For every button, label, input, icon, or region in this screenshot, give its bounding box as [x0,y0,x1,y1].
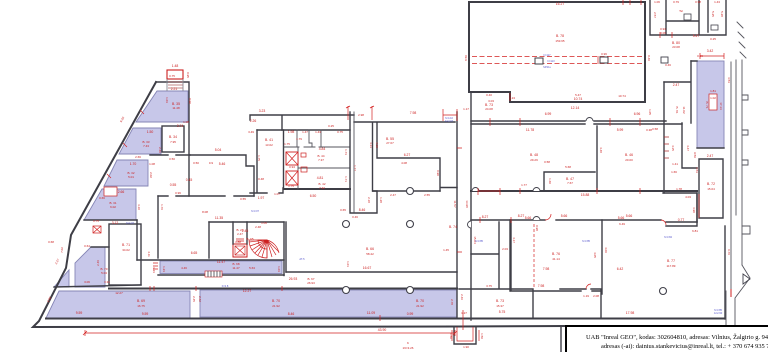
svg-text:1.03: 1.03 [277,266,281,272]
svg-text:0.75: 0.75 [169,74,175,78]
room P2 blue parallelogram [119,128,161,154]
svg-text:UAB "Inreal GEO", kodas: 30260: UAB "Inreal GEO", kodas: 302604810, adre… [586,333,768,341]
svg-text:7.98: 7.98 [538,284,545,288]
svg-text:6.02: 6.02 [110,205,116,209]
svg-text:1.28: 1.28 [379,197,383,203]
svg-text:21.92: 21.92 [272,304,280,308]
svg-text:1.98: 1.98 [288,130,295,134]
svg-text:2.42: 2.42 [198,296,202,302]
svg-text:4.84: 4.84 [319,147,326,151]
room B.72 [699,159,723,218]
svg-text:41.14: 41.14 [552,257,560,261]
red dim overlay on wall y194 [478,188,500,195]
svg-text:h=3.85: h=3.85 [475,239,484,243]
svg-text:8.08: 8.08 [202,210,208,214]
neighbour hatches top [737,22,746,58]
room P5 blue lower-left [75,247,105,287]
wall x286 hall M1 left [285,222,287,272]
wall y196 left corridor bottom [158,195,254,197]
svg-text:2.08: 2.08 [593,294,599,298]
svg-text:1.06: 1.06 [654,0,660,4]
svg-text:0.68: 0.68 [48,240,54,244]
svg-text:5.66: 5.66 [626,214,633,218]
wall y222 stair room top [209,221,284,223]
svg-text:5.28: 5.28 [720,11,724,17]
svg-text:6.76: 6.76 [727,249,731,255]
svg-text:1.07: 1.07 [274,192,280,196]
svg-text:3.31: 3.31 [104,280,110,284]
dashed red verticals [533,224,535,289]
door swing arcs [468,118,593,228]
wall jog y213 [350,189,377,213]
frame line left of title block [560,326,562,352]
svg-text:h=3.85: h=3.85 [582,239,591,243]
svg-text:21.92: 21.92 [416,304,424,308]
svg-text:2.98: 2.98 [358,113,364,117]
svg-text:6.65: 6.65 [191,251,198,255]
room B.47 [544,172,595,191]
svg-text:2.45: 2.45 [192,296,196,302]
svg-text:16.67: 16.67 [363,266,372,270]
svg-text:h=4.07: h=4.07 [126,221,135,225]
small room above lift [233,222,247,244]
svg-text:13.98: 13.98 [465,200,469,208]
room B.34 [162,126,184,152]
svg-text:B. 71: B. 71 [122,243,130,247]
wall y318 bottom right section [457,318,725,320]
svg-text:8.27: 8.27 [482,215,489,219]
big room B.78 [469,2,645,102]
svg-text:B. 78: B. 78 [556,34,564,38]
outer diagonal wall left [33,82,566,327]
svg-text:0.58: 0.58 [652,127,658,131]
svg-text:K: K [407,341,409,345]
svg-text:Tsl: Tsl [679,9,683,13]
svg-text:7.98: 7.98 [410,111,417,115]
svg-text:11.09: 11.09 [367,311,375,315]
svg-text:1.81: 1.81 [710,89,716,93]
svg-text:0.77: 0.77 [678,218,685,222]
svg-text:12.14: 12.14 [571,106,580,110]
room B.76 [511,220,602,294]
divider x597 [596,126,598,191]
column circle [343,221,350,228]
corridor B.69 bottom blue west segment [46,291,190,318]
svg-text:4.47: 4.47 [686,145,690,151]
svg-text:2.57: 2.57 [653,12,657,18]
svg-text:5.47: 5.47 [693,34,700,38]
svg-text:0.46: 0.46 [665,63,671,67]
svg-text:1.08: 1.08 [149,162,155,166]
svg-text:15.88: 15.88 [581,193,590,197]
svg-text:1.47: 1.47 [302,130,308,134]
svg-text:1.90: 1.90 [463,345,469,349]
svg-text:11.78: 11.78 [526,128,534,132]
svg-text:58.42: 58.42 [366,252,374,256]
svg-text:1.97: 1.97 [258,196,265,200]
room B.71 blue right side [697,61,724,148]
svg-text:0.40: 0.40 [647,55,651,61]
room P4 blue parallelogram [84,189,136,220]
svg-text:6.96: 6.96 [634,112,641,116]
door arc right section [661,220,666,225]
svg-text:B. 77: B. 77 [667,259,675,263]
svg-text:6.42: 6.42 [617,267,624,271]
svg-text:2.46: 2.46 [460,294,464,300]
svg-text:16=3.26: 16=3.26 [403,346,414,350]
svg-text:153.65: 153.65 [555,39,565,43]
svg-text:12.27: 12.27 [243,289,252,293]
svg-text:8.46: 8.46 [288,312,295,316]
svg-text:0.25: 0.25 [710,37,716,41]
svg-text:5.01: 5.01 [128,175,134,179]
svg-text:15.37: 15.37 [496,304,504,308]
svg-text:1.43: 1.43 [315,130,321,134]
svg-text:0.25: 0.25 [328,124,334,128]
svg-text:7.43: 7.43 [143,144,149,148]
svg-text:23.08: 23.08 [672,45,680,49]
tiny box in Tsl room [684,14,691,20]
svg-text:20.00: 20.00 [625,158,633,162]
svg-text:B. 69: B. 69 [137,299,145,303]
neighbour building right lines [731,60,742,291]
spiral staircase [249,240,279,258]
svg-text:h=3.07: h=3.07 [251,209,260,213]
svg-text:2.46: 2.46 [96,260,100,266]
title block [566,326,768,352]
svg-text:2.46: 2.46 [158,147,162,153]
svg-text:2.03: 2.03 [502,247,508,251]
lift shaft black hatched [233,244,247,257]
svg-text:2.66: 2.66 [135,155,141,159]
svg-text:15.04: 15.04 [707,187,715,191]
dim line 3.42 above B.71 [700,53,724,59]
svg-text:11.47: 11.47 [232,266,240,270]
svg-text:6.49: 6.49 [619,222,625,226]
svg-text:0.9: 0.9 [209,161,214,165]
cluster bottom thick wall y188 [284,188,350,190]
svg-text:B. 81: B. 81 [675,106,679,113]
svg-text:2.26: 2.26 [250,119,257,123]
svg-text:1.76: 1.76 [160,204,164,210]
svg-text:7.67: 7.67 [567,181,573,185]
svg-text:1.03: 1.03 [165,97,169,103]
svg-text:A=2.90: A=2.90 [714,311,723,315]
svg-text:1.50: 1.50 [480,333,484,339]
shaft white box inside B.71 [709,94,717,110]
svg-text:1.77: 1.77 [521,183,527,187]
svg-text:5.68: 5.68 [565,165,571,169]
svg-text:4.46: 4.46 [181,266,187,270]
wall x349 [349,112,351,189]
svg-text:1.78: 1.78 [676,187,682,191]
porch below bottom wall [454,327,476,344]
wall y222 rooms south top [471,220,697,222]
svg-text:B. 73: B. 73 [496,299,504,303]
svg-text:117.89: 117.89 [667,264,676,268]
svg-text:7.37: 7.37 [318,158,324,162]
svg-text:0.48: 0.48 [258,177,264,181]
svg-text:6.81: 6.81 [692,229,698,233]
svg-text:6.50: 6.50 [310,194,317,198]
svg-text:5.47: 5.47 [575,93,581,97]
stairs in B.68 [205,271,222,277]
svg-text:AT-5: AT-5 [299,257,305,261]
svg-text:0.95: 0.95 [186,72,190,78]
wall y226 B.77 top right part [666,193,697,226]
bottom right diagonal and chevron [726,265,750,326]
cluster inner horiz y156 [298,147,350,189]
shaft box white on P4 [104,187,117,196]
room B.55 walls [354,122,457,191]
svg-text:0.96: 0.96 [188,98,192,104]
wall y155 left [150,154,190,156]
svg-text:1.01: 1.01 [346,261,350,267]
svg-text:7.32: 7.32 [319,186,325,190]
svg-text:0.99: 0.99 [407,312,414,316]
svg-text:1.60: 1.60 [548,178,552,184]
column circle [343,287,350,294]
wall y272 hall M1 bottom [286,271,457,273]
column circle [407,221,414,228]
svg-text:2.46: 2.46 [242,229,249,233]
svg-text:4.06: 4.06 [604,247,608,253]
column circle [407,188,414,195]
svg-text:0.55: 0.55 [240,197,246,201]
svg-text:1.08: 1.08 [183,120,189,124]
svg-text:11.47: 11.47 [217,260,225,264]
corridor B.68 blue [160,261,282,274]
room B.74 walls [471,220,510,291]
svg-text:2.21: 2.21 [171,87,178,91]
svg-text:11.48: 11.48 [172,106,180,110]
svg-text:4.81: 4.81 [317,176,324,180]
svg-text:5.63: 5.63 [249,266,255,270]
top right block walls [650,0,726,35]
rooms B.48 B.46 bottom wall y191 [471,190,697,192]
svg-text:1.41: 1.41 [672,162,678,166]
svg-text:2.66: 2.66 [118,190,125,194]
svg-text:3.23: 3.23 [259,109,266,113]
svg-text:1.43: 1.43 [714,0,720,4]
svg-text:11.35: 11.35 [215,216,223,220]
svg-text:2.02: 2.02 [149,172,153,178]
red tail on right line [730,289,732,297]
svg-text:3.75: 3.75 [486,284,492,288]
svg-text:1.75: 1.75 [284,142,290,146]
vertical shaft wall x457 [456,112,458,318]
svg-text:B. 70: B. 70 [272,299,280,303]
svg-text:9.56: 9.56 [693,152,697,158]
corridor B.70 bottom blue east segment [200,290,457,317]
svg-text:B. 48: B. 48 [530,153,538,157]
room B.77 right wall [724,226,726,319]
svg-text:0.64: 0.64 [84,244,90,248]
svg-text:1.79: 1.79 [296,137,302,141]
svg-text:0.45: 0.45 [186,178,193,182]
svg-text:7.02: 7.02 [60,247,64,253]
svg-text:4.17: 4.17 [512,237,516,243]
tiny box right room [711,25,718,30]
svg-text:1.23: 1.23 [152,267,156,273]
svg-text:SP21s: SP21s [543,65,551,69]
svg-text:4.13: 4.13 [369,142,373,148]
red box left rooms [93,226,101,233]
walls bottom rooms B.73 [459,289,601,318]
svg-text:B. 66: B. 66 [366,247,374,251]
svg-text:24.08: 24.08 [485,107,493,111]
svg-text:12.27: 12.27 [115,291,123,295]
svg-text:10.74: 10.74 [574,97,583,101]
svg-text:2.78: 2.78 [450,299,454,305]
svg-text:adresas (-ai): dainius.stankev: adresas (-ai): dainius.stankevicius@inre… [601,343,768,350]
svg-text:0.98: 0.98 [535,225,539,231]
red H ticks on wall x158 [153,263,158,269]
svg-text:B. 70: B. 70 [416,299,424,303]
svg-text:3.06: 3.06 [84,280,90,284]
wall y288 top of bottom corridor [109,288,457,290]
corridor top wall y115 [250,115,354,130]
svg-text:2.47: 2.47 [707,154,714,158]
room 2.47 left of B.71 [664,61,691,123]
svg-text:h=117: h=117 [543,53,551,57]
porch inner red [457,327,473,341]
svg-text:4.05: 4.05 [593,252,597,258]
svg-text:4.10: 4.10 [375,142,379,148]
svg-text:8.50: 8.50 [464,55,468,61]
svg-text:0.58: 0.58 [544,160,550,164]
svg-text:5.75: 5.75 [499,310,506,314]
svg-text:A=2.97: A=2.97 [445,119,454,123]
cluster inner vertical x283 [283,130,285,189]
svg-text:1.66: 1.66 [671,170,677,174]
svg-text:B. 65: B. 65 [246,237,253,241]
room B.71L walls [109,224,141,285]
svg-text:0.55: 0.55 [170,183,177,187]
red X shaft boxes in cluster [286,152,307,185]
svg-text:34.02: 34.02 [122,248,130,252]
wall x137 [136,220,138,260]
svg-text:3.49: 3.49 [248,130,254,134]
svg-text:16.27: 16.27 [556,2,565,6]
svg-text:0.50: 0.50 [169,157,175,161]
toilet cluster outline [250,130,283,193]
svg-text:B. 74: B. 74 [449,225,457,229]
room B.71 top wall [691,61,724,148]
wall x158 [157,196,159,258]
svg-text:17.13: 17.13 [719,102,723,110]
svg-text:6.27: 6.27 [404,153,411,157]
svg-text:0.40: 0.40 [486,93,492,97]
svg-text:1.23: 1.23 [162,266,166,272]
svg-text:B. 72: B. 72 [707,182,715,186]
svg-text:4.35: 4.35 [671,145,675,151]
wall x284 stair room right [283,222,285,276]
bottom main dimension line 43.90 [83,328,457,336]
svg-text:5.99: 5.99 [617,128,624,132]
svg-text:1.48: 1.48 [172,64,179,68]
wall stair room [208,222,210,258]
svg-text:0.66: 0.66 [99,196,105,200]
svg-text:8.46: 8.46 [359,208,366,212]
svg-text:0.94: 0.94 [289,165,295,169]
svg-text:1.02: 1.02 [710,96,716,100]
svg-text:2.48: 2.48 [255,225,261,229]
svg-text:0.50: 0.50 [193,161,199,165]
svg-text:B. 41: B. 41 [265,138,273,142]
svg-text:1.75: 1.75 [257,155,261,161]
svg-text:5.66: 5.66 [525,216,532,220]
svg-text:h=3.8: h=3.8 [222,284,229,288]
svg-text:43.90: 43.90 [378,328,387,332]
wall x697 y193-222 [663,193,697,222]
ladder rungs [664,137,669,158]
wall y317 bottom corridor south [46,318,457,320]
svg-text:4.03: 4.03 [685,195,691,199]
wall top y82 left block [156,82,189,196]
hatched box top of diagonal [167,64,190,91]
dashed red lines in B.78 [472,57,643,64]
svg-text:10.74: 10.74 [618,94,626,98]
svg-text:1.77: 1.77 [353,165,357,171]
svg-text:9.59: 9.59 [142,312,149,316]
svg-text:1.50: 1.50 [449,333,453,339]
svg-text:1.45: 1.45 [443,248,449,252]
svg-text:2.55: 2.55 [424,193,430,197]
svg-text:0.90: 0.90 [436,170,440,176]
svg-text:0.38: 0.38 [646,128,652,132]
svg-text:1.73: 1.73 [344,149,348,155]
room P3 blue parallelogram [104,160,148,186]
svg-text:0.65: 0.65 [340,208,346,212]
svg-text:1.50: 1.50 [147,130,154,134]
wall y155 corridor top [190,155,254,196]
svg-text:17.98: 17.98 [626,311,635,315]
svg-text:3.90: 3.90 [692,207,696,213]
svg-text:1.19: 1.19 [583,294,589,298]
svg-text:3.53: 3.53 [695,167,699,173]
svg-text:4.08: 4.08 [401,161,407,165]
svg-text:4.11: 4.11 [147,251,151,257]
svg-text:5.66: 5.66 [561,214,568,218]
svg-text:11.02: 11.02 [682,106,686,114]
vertical wall x471 [470,92,472,320]
svg-text:3.53: 3.53 [727,77,731,83]
svg-text:5.04: 5.04 [101,271,107,275]
svg-text:B. 76: B. 76 [552,252,560,256]
small shaft square near x663 [661,57,668,63]
column circle [660,288,667,295]
svg-text:5.25: 5.25 [711,11,715,17]
svg-text:B. 34: B. 34 [169,135,177,139]
svg-text:3.42: 3.42 [707,49,714,53]
svg-text:27.67: 27.67 [386,141,394,145]
wall x664 stair room left [663,82,665,193]
svg-text:16.75: 16.75 [137,304,145,308]
svg-text:3.12: 3.12 [112,221,119,225]
stair room x682 walls [682,123,697,168]
svg-text:2.47: 2.47 [673,83,680,87]
svg-text:0.98: 0.98 [695,0,701,4]
svg-text:26.93: 26.93 [307,281,315,285]
svg-text:8.27: 8.27 [518,214,525,218]
wall y247 small room bottom [91,246,109,248]
svg-text:5.46: 5.46 [219,162,226,166]
svg-text:3.06: 3.06 [660,31,666,35]
wall y275 under B.68 [158,274,284,276]
svg-text:7.95: 7.95 [170,140,176,144]
svg-text:1.06: 1.06 [261,221,267,225]
